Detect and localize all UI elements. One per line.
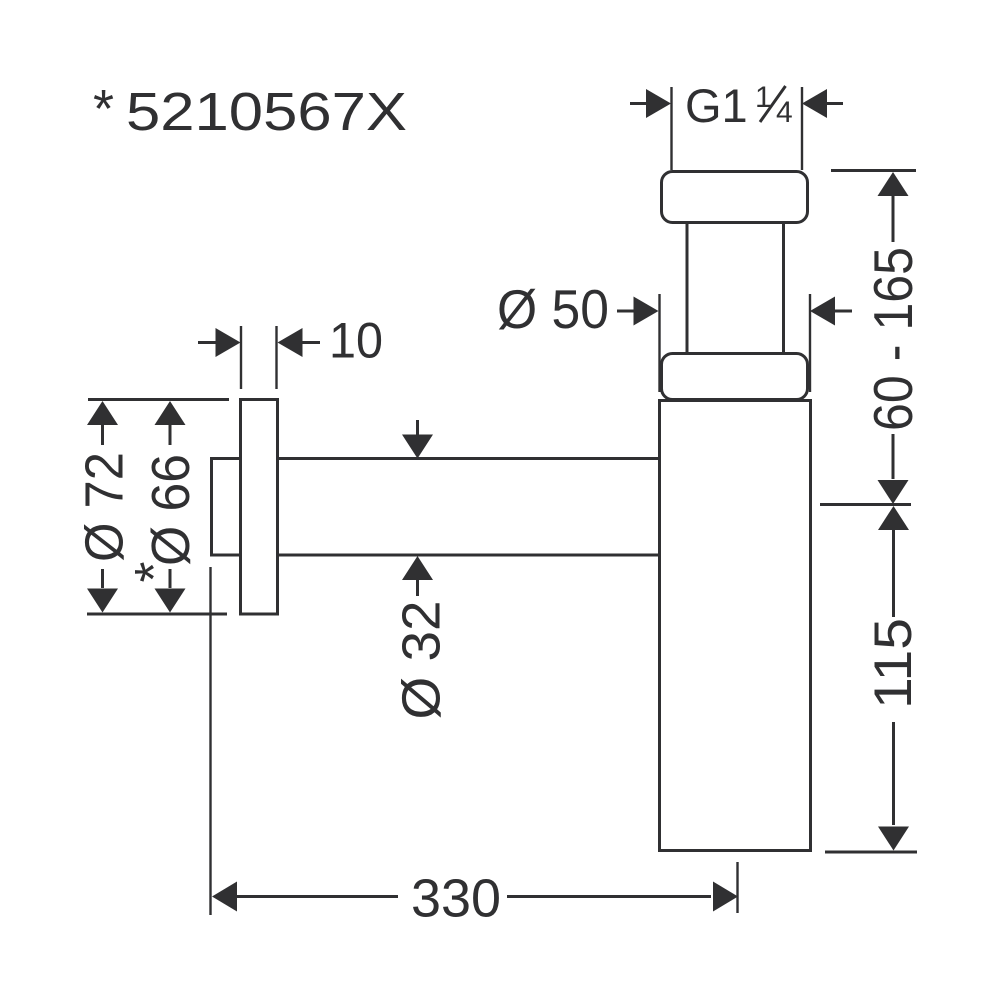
- svg-text:330: 330: [411, 869, 501, 929]
- svg-text:Ø 66: Ø 66: [141, 454, 201, 566]
- dimension G1 1/4: left extension line: [670, 87, 672, 170]
- label 115 (rotated): [864, 618, 923, 709]
- dimension Ø32: lower tail: [416, 580, 419, 596]
- dimension G1 1/4: right extension line: [801, 87, 803, 170]
- horizontal pipe top edge: [278, 457, 658, 460]
- dimension 10: left extension line: [240, 326, 242, 389]
- dimension Ø66: upper tail: [169, 425, 172, 445]
- wall-side pipe stub: [212, 459, 241, 556]
- trap body: [660, 401, 811, 851]
- dimension 330: left line segment: [237, 895, 398, 898]
- dimension 330: left arrow: [212, 882, 237, 912]
- riser tube right edge: [782, 223, 785, 355]
- dimension G1 1/4: right tail: [827, 102, 843, 105]
- label Ø 32 (rotated): [392, 601, 452, 720]
- svg-text:Ø 32: Ø 32: [392, 601, 452, 720]
- dimension Ø32: upper arrow (down): [402, 435, 433, 459]
- dimension 60-165: top tick line: [831, 169, 916, 172]
- dimension 60-165: upper line segment: [892, 196, 895, 242]
- dimension 115: bottom tick line: [825, 851, 917, 854]
- dimension 10: right arrow: [278, 328, 303, 357]
- dimension 330: left extension line: [209, 567, 211, 915]
- article number text *5210567X: [93, 79, 407, 142]
- dimension Ø66: bottom arrow (down): [155, 589, 186, 613]
- svg-text:115: 115: [864, 618, 923, 709]
- dimension Ø72/Ø66: top tick line: [88, 398, 229, 401]
- svg-text:*: *: [124, 561, 184, 582]
- svg-text:Ø 50: Ø 50: [497, 278, 609, 340]
- riser tube left edge: [686, 223, 689, 355]
- dimension Ø72/Ø66: bottom tick line: [87, 613, 227, 616]
- dimension Ø50: right extension line: [809, 294, 811, 392]
- dimension 115: lower line segment: [892, 722, 895, 825]
- svg-text:60 - 165: 60 - 165: [862, 247, 924, 431]
- dimension 60-165: top arrow (up): [878, 172, 909, 196]
- dimension 60-165: bottom arrow (down): [878, 480, 909, 504]
- dimension 10: right tail: [303, 341, 321, 344]
- dimension Ø72: bottom arrow (down): [87, 589, 118, 613]
- horizontal pipe bottom edge: [278, 554, 658, 557]
- dimension G1 1/4: left tail: [630, 102, 647, 105]
- dimension 115: bottom arrow (down): [878, 827, 909, 851]
- dimension Ø66: lower tail: [169, 569, 172, 588]
- svg-text:10: 10: [329, 313, 383, 369]
- dimension Ø50: right arrow: [810, 297, 835, 326]
- dimension 60-165 / 115 divider tick line: [820, 503, 911, 506]
- wall flange (escutcheon): [241, 400, 278, 615]
- dimension 115: top arrow (up): [878, 506, 909, 530]
- dimension Ø72: upper tail: [101, 425, 104, 445]
- label Ø 50: [497, 278, 609, 340]
- svg-text:G1: G1: [685, 79, 748, 132]
- dimension Ø66: top arrow (up): [155, 401, 186, 425]
- footnote asterisk near Ø66 (rotated): [124, 561, 184, 582]
- dimension Ø50: left arrow: [634, 297, 659, 326]
- dimension 330: right arrow: [713, 882, 738, 912]
- dimension G1 1/4: right arrow: [802, 89, 827, 118]
- dimension 10: right extension line: [275, 326, 277, 389]
- dimension Ø72: top arrow (up): [87, 401, 118, 425]
- label 10: [329, 313, 383, 369]
- svg-text:5210567X: 5210567X: [126, 82, 407, 142]
- lower collar nut: [662, 354, 808, 400]
- dimension Ø32: upper tail: [416, 420, 419, 436]
- svg-text:Ø 72: Ø 72: [75, 452, 135, 562]
- dimension Ø50: left extension line: [658, 294, 660, 392]
- label G 1 1/4: [685, 79, 793, 132]
- dimension 10: left tail: [198, 341, 217, 344]
- dimension 10: left arrow: [216, 328, 241, 357]
- svg-text:4: 4: [776, 96, 793, 129]
- svg-text:*: *: [93, 79, 114, 139]
- label Ø 66 (rotated): [141, 454, 201, 566]
- dimension G1 1/4: left arrow: [646, 89, 671, 118]
- dimension Ø50: right tail: [835, 310, 852, 313]
- dimension 330: right line segment: [507, 895, 711, 898]
- dimension Ø32: lower arrow (up): [402, 556, 433, 580]
- dimension Ø72: lower tail: [101, 569, 104, 588]
- dimension 115: upper line segment: [892, 530, 895, 617]
- trap top nut (rounded cap): [662, 172, 808, 223]
- label 330: [411, 869, 501, 929]
- dimension 60-165: lower line segment: [892, 434, 895, 479]
- dimension 330: right extension line: [736, 862, 738, 913]
- label 60 - 165 (rotated): [862, 247, 924, 431]
- dimension Ø50: left tail: [617, 310, 634, 313]
- label Ø 72 (rotated): [75, 452, 135, 562]
